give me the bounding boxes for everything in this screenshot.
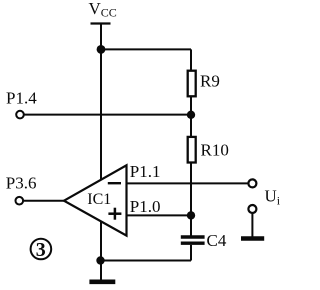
svg-text:R9: R9 <box>200 72 220 91</box>
svg-text:P1.0: P1.0 <box>130 197 161 216</box>
op-amp non-inverting input marker + <box>108 212 121 215</box>
capacitor C4 bottom plate <box>181 241 205 244</box>
svg-text:P1.4: P1.4 <box>6 88 37 107</box>
svg-text:VCC: VCC <box>89 0 117 20</box>
wire: P1.4 horizontal to R9/R10 midpoint <box>25 114 192 116</box>
terminal P1.4 <box>16 111 24 119</box>
wire: bottom horizontal return to rail <box>101 260 192 262</box>
figure number badge 3 <box>31 239 52 260</box>
terminal Ui upper <box>248 179 256 187</box>
ground symbol left <box>89 279 115 284</box>
svg-text:R10: R10 <box>201 141 229 160</box>
resistor R9 <box>188 71 196 97</box>
wire: top horizontal from rail to R9 branch <box>101 48 191 50</box>
wire: P1.1 input line to Ui terminal <box>127 182 249 184</box>
resistor R10 <box>188 137 196 163</box>
junction dot at R9/R10/P1.4 node <box>187 111 195 119</box>
terminal P3.6 <box>15 197 23 205</box>
Vcc supply bar <box>91 22 111 24</box>
terminal Ui lower <box>248 205 256 213</box>
junction dot at P1.0/C4 node <box>187 211 195 219</box>
svg-text:IC1: IC1 <box>87 191 111 208</box>
wire: right vertical branch through R9/R10 down to C4 <box>190 49 192 236</box>
svg-text:3: 3 <box>36 239 46 261</box>
junction dot at Vcc rail split <box>97 45 106 54</box>
wire: P3.6 horizontal to op-amp output <box>24 200 64 202</box>
svg-text:C4: C4 <box>207 231 227 250</box>
capacitor C4 top plate <box>181 235 205 238</box>
junction dot at bottom return/rail node <box>96 256 104 264</box>
wire: P1.0 input line to divider node <box>127 214 192 216</box>
svg-text:P1.1: P1.1 <box>130 162 161 181</box>
svg-text:P3.6: P3.6 <box>6 174 37 193</box>
wire: Ui lower terminal to ground <box>251 213 253 237</box>
wire: C4 bottom vertical <box>190 245 192 261</box>
ground symbol right <box>241 236 264 240</box>
op-amp inverting input marker - <box>108 182 121 184</box>
svg-text:Ui: Ui <box>265 187 281 208</box>
op-amp IC1 (comparator, output to left) <box>64 165 127 235</box>
wire: main vertical rail from Vcc bar to ground <box>100 24 102 281</box>
